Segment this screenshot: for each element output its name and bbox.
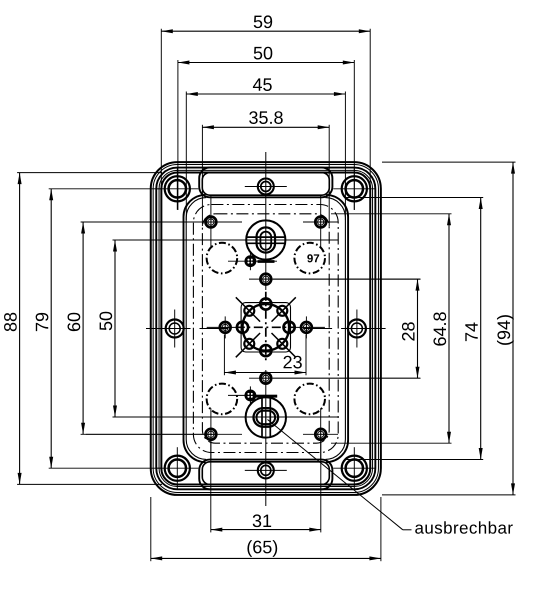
knockout circle dash-dot at 222,399 — [207, 384, 238, 415]
bar screw hole at 266,186 — [245, 179, 287, 195]
knurled knockout at 250,395 — [228, 386, 277, 404]
corner screw boss at 177,468 — [156, 447, 198, 489]
hidden recess 35.8x64.8 dash-dot — [202, 214, 329, 443]
dimension 88 — [4, 173, 162, 485]
leader line ausbrechbar — [268, 420, 403, 530]
outer body outline 65x94 — [151, 162, 381, 495]
bottom gland knockout circle — [246, 396, 286, 437]
label ausbrechbar — [415, 521, 513, 533]
small ring hole at 321,434 — [315, 408, 326, 460]
dimension (65) — [151, 497, 381, 561]
centerline lower rings — [86, 433, 242, 435]
dimension 59 — [161, 15, 370, 195]
top screw bar inner — [202, 173, 329, 196]
vertical centerline — [265, 152, 267, 290]
square inscribed circle — [242, 304, 289, 351]
small ring hole at 225,327 — [207, 316, 244, 338]
small ring hole at 211,434 — [206, 408, 217, 460]
97 mark — [307, 254, 319, 262]
square centerline cross dash-dot — [265, 292, 267, 363]
centerline upper rings — [86, 221, 242, 223]
lid flange outline 59x88 — [161, 173, 370, 485]
body wall line 3 — [156, 168, 375, 490]
corner screw boss at 354,468 — [333, 447, 375, 489]
top screw bar outer — [199, 168, 332, 198]
dimension 28 — [273, 279, 420, 378]
top oval flats — [247, 236, 285, 238]
dimension 64.8 — [331, 214, 452, 443]
small ring hole at 266,378 — [260, 373, 271, 384]
small ring hole at 321,222 — [315, 196, 326, 248]
small ring hole at 211,222 — [206, 196, 217, 248]
mid side screw hole at 357,328 — [348, 310, 366, 348]
horizontal center marks mid screws — [146, 328, 191, 330]
centerline bottom gland — [113, 416, 339, 418]
body wall line 4 — [159, 170, 372, 486]
bottom screw bar outer — [199, 460, 332, 490]
gasket groove dash-dot — [193, 205, 338, 453]
knockout circle dash-dot at 222,258 — [207, 243, 238, 274]
top gland knockout circle — [246, 220, 285, 261]
dimension 45 — [186, 78, 345, 220]
knurled knockout at 250,261 — [228, 252, 277, 270]
bar screw hole at 266,470 — [245, 462, 287, 478]
square knockout 23 — [236, 292, 296, 363]
square edge and corner tabs — [284, 322, 295, 333]
knockout circle dash-dot at 310,399 — [294, 384, 325, 415]
centerline ring 279 / 28-dim extension — [249, 278, 421, 280]
dimension 35.8 — [202, 111, 329, 226]
corner screw boss at 354,189 — [333, 168, 375, 210]
square diagonal X — [236, 297, 260, 321]
top gland tab bar — [258, 260, 275, 263]
bottom oval inner — [257, 411, 276, 424]
dimension 79 — [36, 189, 161, 468]
centerline top gland — [119, 239, 338, 241]
body wall line 2 — [153, 165, 378, 493]
centerline ring 378 / 28-dim extension — [249, 377, 421, 379]
recess opening 45x74 — [186, 198, 206, 460]
mid side screw hole at 175,328 — [166, 310, 184, 348]
dimension 50 — [99, 240, 119, 417]
bottom oval outer — [254, 408, 279, 427]
recess outline thick — [184, 195, 206, 462]
knockout circle dash-dot at 310,258 — [294, 243, 325, 274]
small ring hole at 266,279 — [260, 274, 271, 285]
dimension (94) — [382, 162, 516, 495]
top oval outer — [257, 227, 276, 252]
dimension 50 — [178, 47, 354, 210]
dimension 31 — [211, 441, 321, 532]
bottom oval flats — [261, 397, 263, 437]
bottom gland tab bar — [255, 395, 278, 398]
bottom screw bar inner — [202, 462, 329, 485]
corner screw boss at 177,189 — [156, 168, 198, 210]
dimension 60 — [68, 222, 212, 434]
small ring hole at 306,327 — [288, 316, 325, 338]
dimension 74 — [347, 198, 484, 460]
top oval inner — [260, 232, 271, 250]
dimension 23 — [224, 335, 306, 376]
